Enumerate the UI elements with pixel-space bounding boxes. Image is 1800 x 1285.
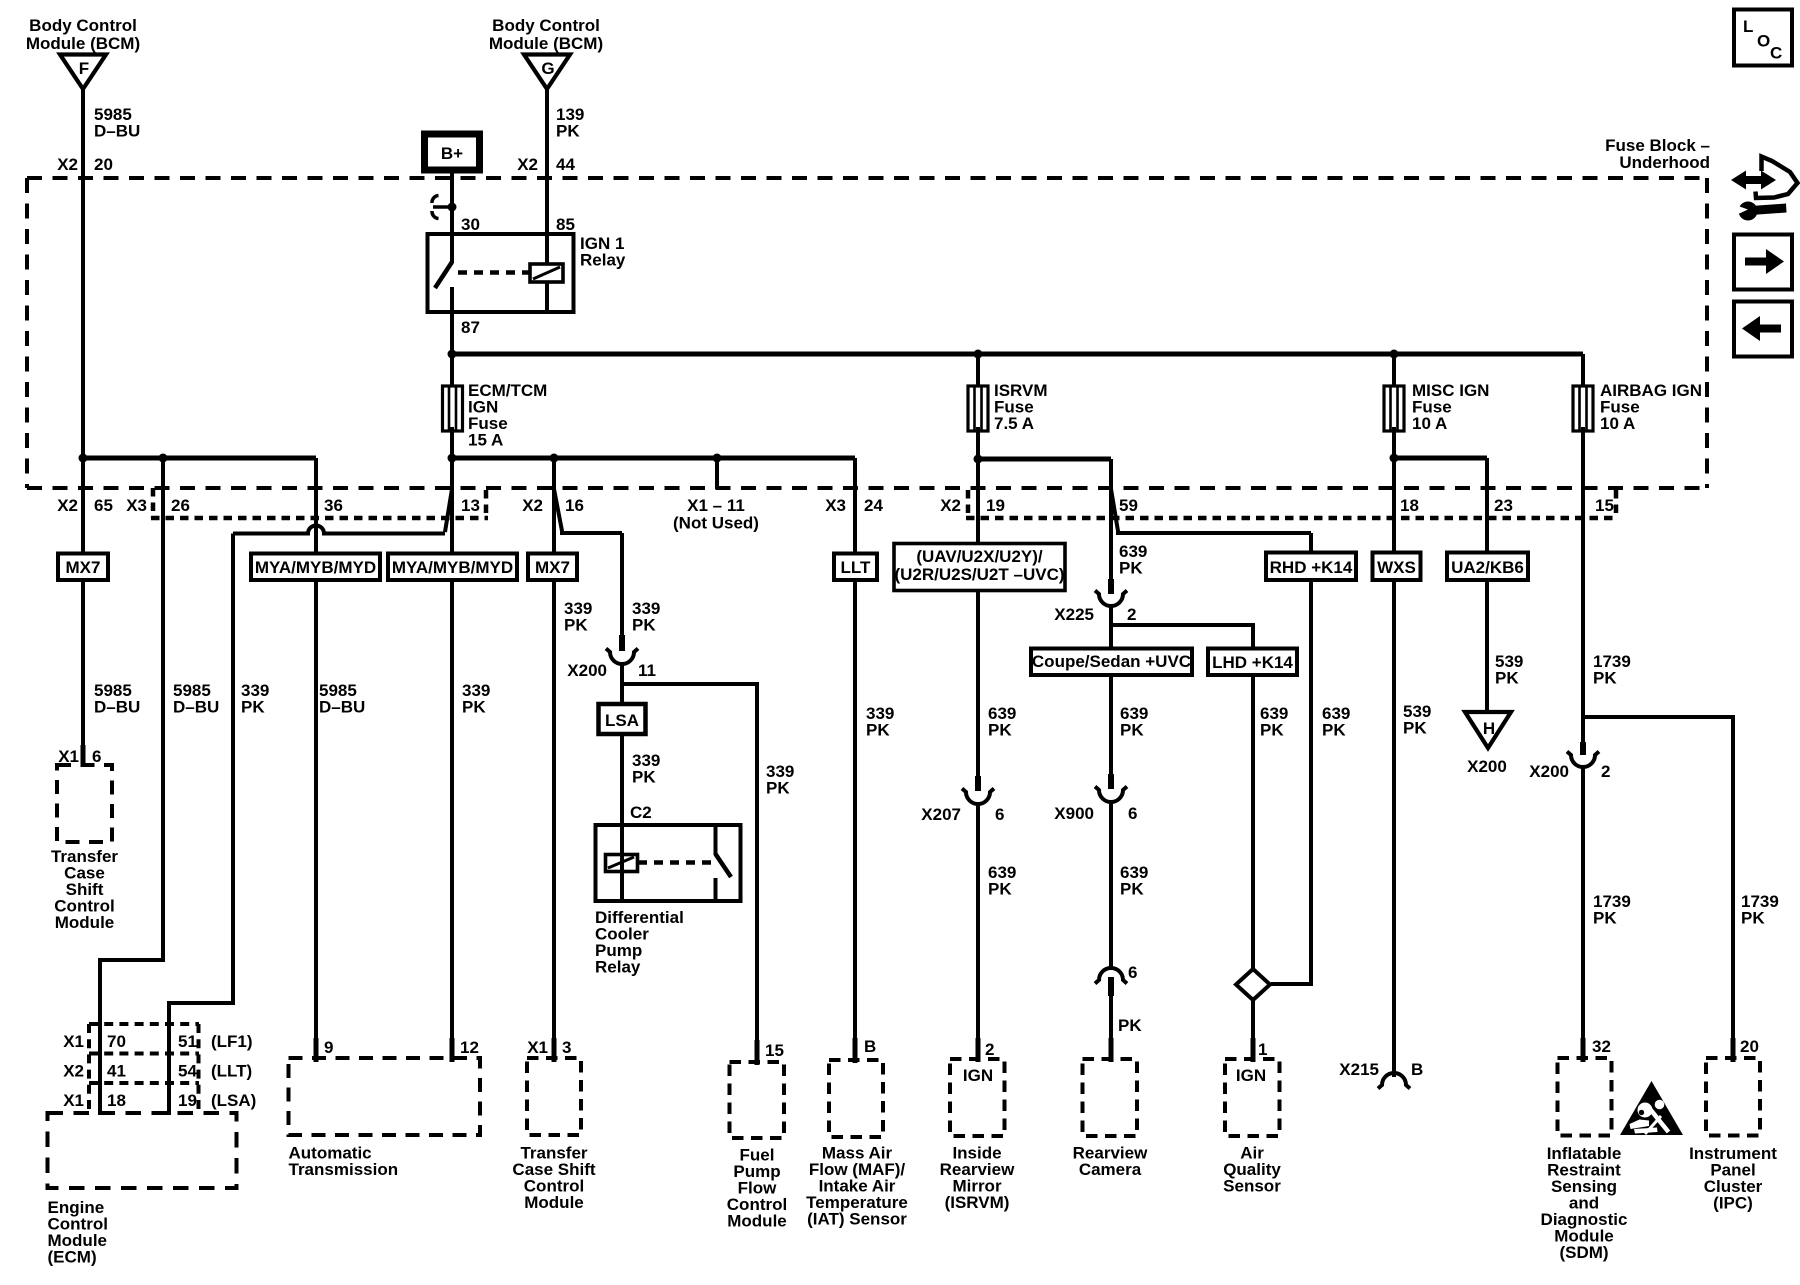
svg-text:PK: PK bbox=[1593, 669, 1617, 688]
svg-text:LHD +K14: LHD +K14 bbox=[1212, 653, 1293, 672]
svg-text:15: 15 bbox=[1595, 496, 1614, 515]
junction node MISC fuse output bbox=[1390, 454, 1399, 463]
fuse ECM/TCM IGN 15A bbox=[443, 386, 463, 431]
svg-text:19: 19 bbox=[986, 496, 1005, 515]
wire label 5985 D-BU (top) bbox=[94, 105, 140, 141]
svg-text:54: 54 bbox=[178, 1062, 197, 1081]
option box MX7 (right) bbox=[528, 554, 577, 581]
svg-text:X200: X200 bbox=[1529, 762, 1569, 781]
svg-text:6: 6 bbox=[92, 747, 101, 766]
connector label X200 2 bbox=[1529, 762, 1610, 781]
svg-text:PK: PK bbox=[1593, 909, 1617, 928]
svg-text:PK: PK bbox=[462, 698, 486, 717]
wire label 539 PK (WXS wire) bbox=[1403, 702, 1431, 738]
wire label 639 PK (pin 59 wire) bbox=[1119, 542, 1147, 578]
label MISC IGN Fuse 10 A bbox=[1412, 381, 1489, 433]
option box MYA/MYB/MYD (right) bbox=[388, 554, 517, 581]
svg-text:(SDM): (SDM) bbox=[1559, 1243, 1608, 1262]
svg-text:MYA/MYB/MYD: MYA/MYB/MYD bbox=[392, 558, 513, 577]
svg-text:41: 41 bbox=[107, 1062, 126, 1081]
svg-text:PK: PK bbox=[564, 616, 588, 635]
ECM connector pin rows dotted grid bbox=[89, 1024, 199, 1113]
wire: 339 PK distribution bus after ECM/TCM fuse bbox=[452, 456, 855, 461]
ECM pin row X1 18 19 (LSA) bbox=[63, 1091, 256, 1110]
svg-text:10 A: 10 A bbox=[1600, 414, 1635, 433]
module box Instrument Panel Cluster bbox=[1706, 1058, 1760, 1136]
svg-text:(LLT): (LLT) bbox=[211, 1062, 252, 1081]
wire: horizontal 339 PK link with hop over AT-9 wire bbox=[233, 526, 445, 534]
module box Fuel Pump Flow Control Module bbox=[730, 1062, 785, 1138]
svg-text:MX7: MX7 bbox=[535, 558, 570, 577]
svg-text:X225: X225 bbox=[1054, 605, 1094, 624]
inline connector rearview camera pin 6 (mating half) bbox=[1095, 968, 1127, 996]
pin label X2 20 bbox=[57, 155, 113, 174]
fuse ISRVM 7.5A bbox=[968, 386, 988, 431]
label Transfer Case Shift Control Module (upper) bbox=[51, 847, 118, 932]
svg-text:L: L bbox=[1743, 17, 1753, 36]
wire: 539 PK branch bus after MISC IGN fuse bbox=[1394, 456, 1487, 461]
svg-text:Body Control: Body Control bbox=[29, 16, 137, 35]
wire: PK from X900-6 to Rearview Camera bbox=[1109, 802, 1113, 968]
fuse block underhood dashed border top bbox=[27, 176, 1707, 180]
svg-text:(UAV/U2X/U2Y)/: (UAV/U2X/U2Y)/ bbox=[916, 547, 1043, 566]
svg-text:15 A: 15 A bbox=[468, 431, 503, 450]
module box Transfer Case Shift Control Module (upper left) bbox=[57, 765, 112, 842]
connector label X207 6 bbox=[921, 805, 1004, 824]
option box LHD +K14 bbox=[1208, 649, 1297, 676]
svg-text:PK: PK bbox=[1118, 1016, 1142, 1035]
label AIRBAG IGN Fuse 10 A bbox=[1600, 381, 1702, 433]
svg-text:85: 85 bbox=[556, 215, 575, 234]
svg-text:Relay: Relay bbox=[595, 958, 641, 977]
svg-text:X2: X2 bbox=[63, 1062, 84, 1081]
wire: AIRBAG IGN fuse top stub bbox=[1581, 354, 1585, 387]
svg-text:G: G bbox=[541, 59, 554, 78]
splice diamond at Air Quality Sensor feed bbox=[1236, 969, 1270, 1000]
svg-text:D–BU: D–BU bbox=[94, 698, 140, 717]
svg-text:Relay: Relay bbox=[580, 251, 626, 270]
option box Coupe/Sedan +UVC bbox=[1031, 649, 1192, 676]
ECM pin row X2 41 54 (LLT) bbox=[63, 1062, 252, 1081]
junction node ECM/TCM fuse output bbox=[448, 454, 457, 463]
wire: 339 PK branch to ECM pin 19 (LSA) bbox=[169, 534, 233, 1116]
svg-text:(ISRVM): (ISRVM) bbox=[945, 1193, 1010, 1212]
wire: 539 PK through pin 23 and UA2/KB6 to H triangle bbox=[1485, 458, 1489, 556]
module box Inside Rearview Mirror (ISRVM) bbox=[950, 1059, 1005, 1136]
fuse block underhood dashed border bottom bbox=[27, 486, 1707, 490]
option box WXS bbox=[1373, 553, 1421, 581]
inline connector X225 pin 2 bbox=[1095, 579, 1127, 606]
wire label 139 PK bbox=[556, 105, 584, 141]
module box Rearview Camera bbox=[1083, 1059, 1138, 1136]
svg-text:X2: X2 bbox=[940, 496, 961, 515]
wire label 639 PK (RHD wire) bbox=[1322, 704, 1350, 740]
label Transfer Case Shift Control Module (lower) bbox=[512, 1144, 595, 1213]
junction node 5985 bus ECM branch bbox=[159, 454, 168, 463]
wire label 639 PK (below X207) bbox=[988, 863, 1016, 899]
wire: 5985 D-BU branch to Automatic Transmission pin 9 bbox=[314, 458, 318, 1040]
wire: ECM/TCM fuse top stub bbox=[450, 354, 454, 387]
svg-text:Camera: Camera bbox=[1079, 1160, 1142, 1179]
svg-text:(Not Used): (Not Used) bbox=[673, 514, 759, 533]
svg-text:X215: X215 bbox=[1339, 1060, 1379, 1079]
svg-text:PK: PK bbox=[632, 768, 656, 787]
svg-text:32: 32 bbox=[1592, 1037, 1611, 1056]
connector strip X2 right (pins 19/59/18/23/15) dotted outline bbox=[966, 490, 1618, 518]
wire: B+ feed to relay pin 30 bbox=[450, 170, 454, 236]
svg-text:12: 12 bbox=[460, 1038, 479, 1057]
svg-text:LSA: LSA bbox=[605, 711, 639, 730]
ECM pin row X1 70 51 (LF1) bbox=[63, 1032, 252, 1051]
svg-text:X200: X200 bbox=[1467, 757, 1507, 776]
wire: 639 PK from X225-2 to Coupe/Sedan +UVC and X900 bbox=[1109, 605, 1113, 649]
svg-text:LLT: LLT bbox=[841, 558, 872, 577]
svg-text:Module (BCM): Module (BCM) bbox=[489, 34, 603, 53]
svg-text:9: 9 bbox=[324, 1038, 333, 1057]
wire: 1739 PK branch to Instrument Panel Cluster pin 20 bbox=[1583, 717, 1733, 1040]
svg-text:(IPC): (IPC) bbox=[1713, 1194, 1753, 1213]
wire: 539 PK through pin 18 and WXS to X215 bbox=[1392, 427, 1396, 556]
connector label X900 6 bbox=[1054, 804, 1137, 823]
svg-text:RHD +K14: RHD +K14 bbox=[1270, 558, 1353, 577]
svg-text:26: 26 bbox=[171, 496, 190, 515]
svg-text:7.5 A: 7.5 A bbox=[994, 414, 1034, 433]
svg-text:D–BU: D–BU bbox=[94, 122, 140, 141]
svg-text:20: 20 bbox=[1740, 1037, 1759, 1056]
svg-text:Sensor: Sensor bbox=[1223, 1177, 1281, 1196]
relay Differential Cooler Pump (connector C2) bbox=[596, 825, 741, 901]
svg-text:PK: PK bbox=[1322, 721, 1346, 740]
wire label 1739 PK (IPC wire) bbox=[1741, 892, 1779, 928]
wire: 339 PK from fuse pin 16 to Transfer Case Shift CM pin 3 bbox=[552, 458, 556, 1040]
inline connector X200 pin 2 bbox=[1567, 742, 1599, 767]
svg-text:(ECM): (ECM) bbox=[48, 1248, 97, 1267]
svg-text:X2: X2 bbox=[57, 155, 78, 174]
wire label 339 PK (ECM pin19 wire) bbox=[241, 681, 269, 717]
inline connector X207 pin 6 bbox=[962, 776, 994, 804]
svg-text:23: 23 bbox=[1494, 496, 1513, 515]
svg-text:44: 44 bbox=[556, 155, 575, 174]
wire label 5985 D-BU (ECM wire) bbox=[173, 681, 219, 717]
svg-text:11: 11 bbox=[638, 661, 656, 680]
svg-text:13: 13 bbox=[461, 496, 480, 515]
pin label X2 65 bbox=[57, 496, 113, 515]
connector triangle F to BCM bbox=[60, 55, 106, 90]
svg-text:87: 87 bbox=[461, 318, 480, 337]
wire: 639 PK branch bus after ISRVM fuse bbox=[978, 457, 1111, 462]
pin label X2 19 bbox=[940, 496, 1005, 515]
svg-text:MX7: MX7 bbox=[66, 558, 101, 577]
wire: 339 PK from X200-11 to LSA and Differential Cooler Pump Relay bbox=[620, 663, 624, 902]
svg-text:51: 51 bbox=[178, 1032, 197, 1051]
wire label 639 PK (LHD wire) bbox=[1260, 704, 1288, 740]
svg-text:Module: Module bbox=[55, 913, 115, 932]
svg-text:PK: PK bbox=[866, 721, 890, 740]
inline connector X215 pin B (mating half, wire end) bbox=[1378, 1073, 1410, 1089]
wire: pin 13 jog to left branch bbox=[445, 489, 452, 532]
wire label 339 PK (fuel pump wire) bbox=[766, 762, 794, 798]
wire label 1739 PK (SDM wire) bbox=[1593, 892, 1631, 928]
svg-text:6: 6 bbox=[1128, 963, 1137, 982]
svg-text:Underhood: Underhood bbox=[1619, 153, 1710, 172]
svg-text:1: 1 bbox=[1258, 1040, 1267, 1059]
label Automatic Transmission bbox=[289, 1144, 399, 1180]
junction node 339 bus X1-11 stub bbox=[713, 454, 722, 463]
junction node ISRVM fuse output bbox=[974, 455, 983, 464]
fuse block underhood dashed border left bbox=[25, 178, 29, 488]
svg-text:Body Control: Body Control bbox=[492, 16, 600, 35]
back arrow box icon bbox=[1734, 302, 1792, 357]
wire label 5985 D-BU (MX7 wire) bbox=[94, 681, 140, 717]
wire label 5985 D-BU (AT pin9 wire) bbox=[319, 681, 365, 717]
wire label 1739 PK (upper) bbox=[1593, 652, 1631, 688]
svg-text:2: 2 bbox=[1601, 762, 1610, 781]
wire label 639 PK (below X900) bbox=[1120, 863, 1148, 899]
wire label 339 PK (LSA lower wire) bbox=[632, 751, 660, 787]
connector label X215 B bbox=[1339, 1060, 1423, 1079]
service tool double-arrow and wrench icon bbox=[1731, 157, 1798, 221]
svg-text:IGN: IGN bbox=[1236, 1066, 1266, 1085]
svg-text:Module: Module bbox=[727, 1212, 787, 1231]
connector strip X3 (pins 26/36/13) dotted outline bbox=[151, 488, 488, 518]
wire: 639 PK through pin 19 and UAV option to X207 bbox=[976, 427, 980, 779]
svg-text:24: 24 bbox=[864, 496, 883, 515]
svg-text:PK: PK bbox=[1260, 721, 1284, 740]
label IGN 1 Relay bbox=[580, 234, 626, 270]
svg-text:PK: PK bbox=[1119, 559, 1143, 578]
svg-text:X2: X2 bbox=[517, 155, 538, 174]
svg-text:Module: Module bbox=[524, 1193, 584, 1212]
module box Inflatable Restraint SDM bbox=[1558, 1058, 1612, 1136]
inline connector X200 pin 11 bbox=[606, 635, 638, 664]
wire: 639 PK RHD +K14 branch down to splice bbox=[1309, 533, 1313, 556]
wire: fuse block pin X1-11 stub (not used) bbox=[715, 458, 719, 489]
svg-text:19: 19 bbox=[178, 1091, 197, 1110]
svg-text:18: 18 bbox=[107, 1091, 126, 1110]
junction node relay 87 at main bus bbox=[448, 350, 457, 359]
label Engine Control Module (ECM) bbox=[48, 1198, 108, 1267]
module box Air Quality Sensor bbox=[1225, 1059, 1280, 1136]
svg-text:PK: PK bbox=[632, 616, 656, 635]
svg-text:15: 15 bbox=[765, 1041, 784, 1060]
svg-text:WXS: WXS bbox=[1377, 558, 1416, 577]
svg-text:3: 3 bbox=[562, 1038, 571, 1057]
option box UA2/KB6 bbox=[1447, 553, 1528, 581]
forward arrow box icon bbox=[1734, 235, 1792, 290]
svg-text:X3: X3 bbox=[126, 496, 147, 515]
junction node ISRVM fuse at main bus bbox=[974, 350, 983, 359]
pin label X3 26 bbox=[126, 496, 190, 515]
svg-text:H: H bbox=[1483, 719, 1495, 738]
svg-text:IGN: IGN bbox=[963, 1066, 993, 1085]
wire: 339 PK branch to Fuel Pump Flow Control Module pin 15 bbox=[622, 684, 757, 1042]
svg-text:C2: C2 bbox=[630, 803, 652, 822]
connector label X200 11 bbox=[567, 661, 656, 680]
wire label 339 PK (MAF wire) bbox=[866, 704, 894, 740]
svg-text:PK: PK bbox=[241, 698, 265, 717]
svg-text:10 A: 10 A bbox=[1412, 414, 1447, 433]
svg-text:6: 6 bbox=[995, 805, 1004, 824]
svg-text:6: 6 bbox=[1128, 804, 1137, 823]
label Body Control Module (BCM) right bbox=[489, 16, 603, 53]
fuse MISC IGN 10A bbox=[1384, 386, 1404, 431]
svg-text:UA2/KB6: UA2/KB6 bbox=[1451, 558, 1524, 577]
connector label X225 2 bbox=[1054, 605, 1136, 624]
svg-text:Module (BCM): Module (BCM) bbox=[26, 34, 140, 53]
svg-text:PK: PK bbox=[1120, 880, 1144, 899]
wire: 639 PK from X207-6 to ISRVM pin 2 bbox=[976, 804, 980, 1040]
label Instrument Panel Cluster (IPC) bbox=[1689, 1144, 1777, 1213]
wire label 639 PK (camera wire) bbox=[1120, 704, 1148, 740]
svg-text:20: 20 bbox=[94, 155, 113, 174]
svg-text:16: 16 bbox=[565, 496, 584, 515]
label ISRVM Fuse 7.5 A bbox=[994, 381, 1048, 433]
pin label X2 44 bbox=[517, 155, 575, 174]
label Fuel Pump Flow Control Module bbox=[727, 1146, 787, 1231]
junction node clip on wire bbox=[448, 203, 457, 212]
svg-text:X2: X2 bbox=[57, 496, 78, 515]
svg-text:MYA/MYB/MYD: MYA/MYB/MYD bbox=[255, 558, 376, 577]
svg-text:B: B bbox=[864, 1037, 876, 1056]
option box RHD +K14 bbox=[1266, 553, 1356, 581]
label ECM/TCM IGN Fuse 15 A bbox=[468, 381, 547, 450]
option box LLT bbox=[834, 554, 877, 581]
junction node MISC IGN fuse at main bus bbox=[1390, 350, 1399, 359]
svg-text:PK: PK bbox=[1741, 909, 1765, 928]
airbag caution triangle icon bbox=[1620, 1081, 1683, 1135]
svg-text:(LF1): (LF1) bbox=[211, 1032, 253, 1051]
svg-text:(U2R/U2S/U2T –UVC): (U2R/U2S/U2T –UVC) bbox=[894, 565, 1064, 584]
label Rearview Camera bbox=[1073, 1144, 1148, 1180]
wire: 5985 D-BU distribution bus (net of BCM F) bbox=[83, 456, 316, 461]
wire label 339 PK (AT pin12 wire) bbox=[462, 681, 490, 717]
svg-text:59: 59 bbox=[1119, 496, 1138, 515]
module box Transfer Case Shift Control Module (lower) bbox=[527, 1058, 581, 1135]
svg-text:Coupe/Sedan +UVC: Coupe/Sedan +UVC bbox=[1032, 652, 1191, 671]
pin label X3 24 bbox=[825, 496, 883, 515]
wire label 339 PK (X200-11 wire) bbox=[632, 599, 660, 635]
wire label 539 PK (UA2 wire) bbox=[1495, 652, 1523, 688]
svg-text:PK: PK bbox=[988, 721, 1012, 740]
svg-text:2: 2 bbox=[985, 1040, 994, 1059]
svg-text:70: 70 bbox=[107, 1032, 126, 1051]
module box Engine Control Module (ECM) bbox=[48, 1113, 237, 1188]
svg-text:36: 36 bbox=[324, 496, 343, 515]
svg-text:X1 – 11: X1 – 11 bbox=[687, 496, 745, 515]
svg-text:65: 65 bbox=[94, 496, 113, 515]
label Body Control Module (BCM) left bbox=[26, 16, 140, 53]
svg-text:2: 2 bbox=[1127, 605, 1136, 624]
wire: 639 PK branch from X225 to LHD +K14 bbox=[1111, 625, 1253, 649]
wire: MISC IGN fuse top stub bbox=[1392, 354, 1396, 387]
svg-text:X900: X900 bbox=[1054, 804, 1094, 823]
svg-text:F: F bbox=[79, 59, 89, 78]
svg-text:C: C bbox=[1770, 44, 1782, 63]
wire: BCM F to MX7 and Transfer Case Shift Control Module (5985 D-BU) bbox=[81, 89, 85, 554]
pin label X1 6 bbox=[58, 747, 101, 766]
svg-text:D–BU: D–BU bbox=[173, 698, 219, 717]
svg-text:X2: X2 bbox=[522, 496, 543, 515]
wire: ISRVM fuse top stub bbox=[976, 354, 980, 387]
pin label X1 3 bbox=[527, 1038, 571, 1057]
svg-text:(LSA): (LSA) bbox=[211, 1091, 256, 1110]
label Mass Air Flow (MAF)/ Intake Air Temperature (IAT) Sensor bbox=[806, 1144, 908, 1229]
module box Mass Air Flow (MAF)/IAT Sensor bbox=[829, 1060, 883, 1137]
wire: pin 59 jog to RHD +K14 branch bbox=[1111, 489, 1311, 533]
svg-text:PK: PK bbox=[1495, 669, 1519, 688]
label Inside Rearview Mirror (ISRVM) bbox=[940, 1144, 1015, 1213]
option box LSA bbox=[599, 704, 646, 734]
svg-text:X1: X1 bbox=[63, 1091, 84, 1110]
svg-text:X200: X200 bbox=[567, 661, 607, 680]
option box (UAV/U2X/U2Y)/(U2R/U2S/U2T -UVC) bbox=[894, 544, 1065, 591]
label Differential Cooler Pump Relay bbox=[595, 908, 684, 977]
wire: 339 PK from fuse pin 13 to Automatic Transmission pin 12 bbox=[450, 427, 454, 1040]
wire: pin 16 jog to X200-11 branch bbox=[554, 489, 622, 533]
svg-text:PK: PK bbox=[1403, 719, 1427, 738]
svg-text:PK: PK bbox=[1120, 721, 1144, 740]
svg-text:(IAT) Sensor: (IAT) Sensor bbox=[807, 1210, 907, 1229]
option box MYA/MYB/MYD (left) bbox=[251, 554, 380, 581]
inline connector X900 pin 6 bbox=[1095, 774, 1127, 802]
svg-text:PK: PK bbox=[988, 880, 1012, 899]
wire: BCM G to relay pin 85 (139 PK) bbox=[545, 89, 549, 236]
battery positive B+ terminal box bbox=[425, 134, 480, 170]
svg-text:30: 30 bbox=[461, 215, 480, 234]
fuse AIRBAG IGN 10A bbox=[1573, 386, 1593, 431]
wire: relay 87 output bus (339 PK feed) bbox=[450, 312, 454, 354]
svg-text:X207: X207 bbox=[921, 805, 961, 824]
fuse block underhood dashed border right bbox=[1705, 178, 1709, 488]
svg-text:Transmission: Transmission bbox=[289, 1160, 399, 1179]
wire label 339 PK (pin16 wire) bbox=[564, 599, 592, 635]
option box MX7 (left) bbox=[58, 554, 108, 581]
connector triangle G to BCM bbox=[524, 55, 570, 90]
wire: 5985 D-BU branch to ECM pins 70/41/18 bbox=[100, 458, 163, 1115]
pin label X1-11 Not Used bbox=[673, 496, 759, 533]
svg-text:PK: PK bbox=[766, 779, 790, 798]
svg-text:18: 18 bbox=[1400, 496, 1419, 515]
wire: 639 PK from LHD +K14 down to splice diamond bbox=[1251, 672, 1255, 970]
svg-text:PK: PK bbox=[556, 122, 580, 141]
wire label 639 PK (ISRVM wire) bbox=[988, 704, 1016, 740]
svg-text:O: O bbox=[1757, 32, 1770, 51]
wire: 339 PK through pin 24 and LLT to MAF/IAT sensor pin B bbox=[853, 458, 857, 1040]
svg-text:X1: X1 bbox=[63, 1032, 84, 1051]
relay IGN 1 bbox=[428, 234, 574, 312]
wire: splice diamond to Air Quality Sensor pin 1 bbox=[1251, 999, 1255, 1040]
svg-text:X3: X3 bbox=[825, 496, 846, 515]
svg-text:X1: X1 bbox=[58, 747, 79, 766]
module box Automatic Transmission bbox=[289, 1058, 481, 1135]
wire: 1739 PK through pin 15 down to X200-2 and SDM pin 32 bbox=[1581, 427, 1585, 746]
svg-text:D–BU: D–BU bbox=[319, 698, 365, 717]
junction node 339 bus pin16 branch bbox=[550, 454, 559, 463]
label Fuse Block Underhood bbox=[1605, 136, 1710, 172]
connector triangle H (X200) bbox=[1465, 712, 1511, 748]
svg-text:X1: X1 bbox=[527, 1038, 548, 1057]
svg-text:B+: B+ bbox=[441, 144, 463, 163]
junction node on F wire at 5985 bus bbox=[79, 454, 88, 463]
label Air Quality Sensor bbox=[1223, 1144, 1281, 1196]
battery feed clip symbol on relay 30 wire bbox=[432, 196, 452, 219]
wire: 639 PK pin 59 drop to X225 bbox=[1109, 459, 1113, 582]
LOC reference box icon bbox=[1734, 10, 1792, 66]
label Inflatable Restraint Sensing and Diagnostic Module (SDM) bbox=[1541, 1144, 1628, 1262]
svg-text:B: B bbox=[1411, 1060, 1423, 1079]
pin label X2 16 bbox=[522, 496, 584, 515]
wire: 339 PK down to X200 pin 11 bbox=[620, 533, 624, 637]
